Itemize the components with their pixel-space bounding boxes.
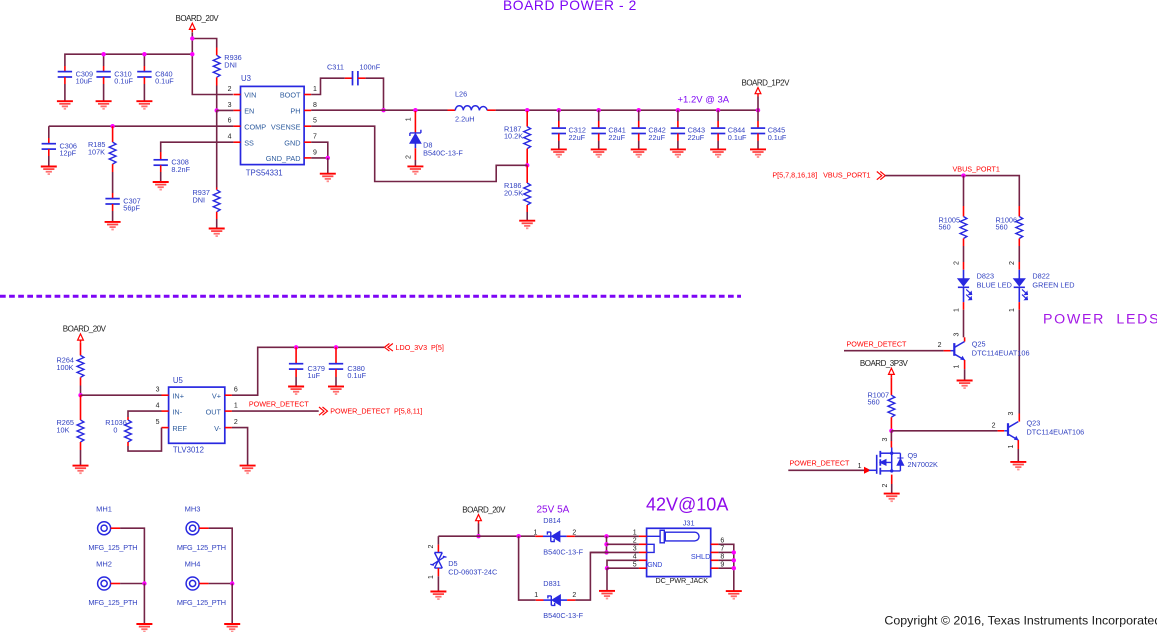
- junction pin3 node: [604, 550, 608, 554]
- svg-text:1uF: 1uF: [308, 371, 321, 380]
- lead R265 bottom red: [80, 442, 82, 450]
- svg-text:3: 3: [228, 102, 232, 109]
- ground C843: [670, 149, 686, 157]
- svg-text:2: 2: [938, 342, 942, 349]
- wire PH line: [311, 109, 447, 111]
- offpage chevron VBUS_PORT1: [877, 172, 886, 180]
- junction COMP/R185: [110, 124, 114, 128]
- svg-text:J31: J31: [683, 519, 695, 528]
- wire C311 to PH: [366, 78, 384, 110]
- U5 pin names: [172, 391, 221, 432]
- ground C844: [710, 149, 726, 157]
- lead R1006 red top: [1018, 206, 1020, 217]
- ground R186: [519, 221, 535, 229]
- inductor L26 2.2uH: [455, 106, 487, 111]
- svg-text:D823: D823: [977, 272, 994, 281]
- U3 pin numbers: [228, 86, 317, 156]
- lead C841 red: [598, 121, 600, 128]
- svg-text:2: 2: [1009, 261, 1016, 265]
- IC body J31 DC_PWR_JACK: [647, 528, 711, 576]
- svg-text:OUT: OUT: [206, 407, 222, 416]
- ground D8: [407, 166, 423, 174]
- wire MH1 wire: [120, 528, 144, 583]
- lead D822 red top: [1018, 262, 1020, 270]
- wire R936 bottom to EN: [216, 86, 218, 111]
- svg-text:MFG_125_PTH: MFG_125_PTH: [88, 543, 137, 552]
- ground C840: [136, 101, 152, 109]
- lead C843 red: [677, 121, 679, 128]
- svg-text:3: 3: [156, 387, 160, 394]
- lead C845 red: [757, 121, 759, 128]
- mounting hole MH1 (MFG_125_PTH): [98, 522, 111, 535]
- svg-text:BOARD_20V: BOARD_20V: [462, 505, 506, 514]
- junction bus/C380: [334, 345, 338, 349]
- diode D831 (B540C-13-F): [544, 595, 568, 606]
- svg-text:6: 6: [720, 537, 724, 544]
- junction shield node 9: [732, 566, 736, 570]
- lead C379 bottom: [295, 369, 297, 377]
- svg-text:BOARD_20V: BOARD_20V: [176, 14, 220, 23]
- svg-text:SS: SS: [244, 138, 254, 147]
- lead MH2 red: [111, 583, 121, 585]
- lead C380 red top: [335, 347, 337, 363]
- wire U3 gnd stem: [327, 158, 329, 174]
- svg-text:MFG_125_PTH: MFG_125_PTH: [177, 543, 226, 552]
- ground C307: [105, 222, 121, 230]
- junction shield node 7: [732, 550, 736, 554]
- lead R936 bottom red: [216, 77, 218, 85]
- lead C308 bottom: [160, 165, 162, 172]
- svg-text:2: 2: [992, 422, 996, 429]
- svg-text:DTC114EUAT106: DTC114EUAT106: [972, 349, 1030, 358]
- svg-text:B540C-13-F: B540C-13-F: [423, 149, 463, 158]
- resistor R264: [77, 355, 84, 377]
- wire VBUS_PORT1: [885, 176, 1019, 206]
- IC body U3 TPS54331: [241, 86, 305, 164]
- svg-text:MH2: MH2: [96, 560, 112, 569]
- svg-text:POWER_DETECT: POWER_DETECT: [790, 458, 851, 467]
- wire Q25 emitter to gnd: [964, 369, 966, 380]
- ground MH x144.4: [136, 624, 152, 632]
- svg-text:Copyright © 2016, Texas Instru: Copyright © 2016, Texas Instruments Inco…: [884, 614, 1157, 628]
- lead C307 red top: [112, 193, 114, 199]
- junction FB node: [525, 163, 529, 167]
- wire branch to D831: [519, 536, 536, 600]
- svg-text:2.2uH: 2.2uH: [455, 115, 474, 124]
- svg-text:1: 1: [428, 575, 435, 579]
- svg-text:25V 5A: 25V 5A: [537, 505, 570, 516]
- svg-text:4: 4: [228, 134, 232, 141]
- wire EN pin wire: [217, 109, 234, 111]
- resistor R937: [213, 190, 220, 212]
- svg-text:POWER_DETECT: POWER_DETECT: [847, 339, 908, 348]
- lead R186 bottom red: [526, 205, 528, 212]
- lead Q25 collector red: [964, 337, 966, 341]
- svg-text:DNI: DNI: [224, 61, 237, 70]
- wire C845 top lead: [757, 110, 759, 121]
- wire C844 top lead: [717, 110, 719, 121]
- svg-text:1: 1: [953, 364, 960, 368]
- svg-text:TLV3012: TLV3012: [173, 445, 204, 454]
- lead L26 left red: [448, 109, 456, 111]
- svg-text:GND_PAD: GND_PAD: [266, 154, 301, 163]
- svg-text:1: 1: [234, 403, 238, 410]
- wire BOARD_20V branch to R936: [192, 39, 216, 48]
- svg-text:10uF: 10uF: [76, 77, 93, 86]
- LED D822 GREEN: [1014, 270, 1028, 302]
- capacitor C311: [353, 71, 358, 85]
- svg-text:BOARD_20V: BOARD_20V: [63, 325, 107, 334]
- mounting hole MH2 (MFG_125_PTH): [98, 577, 111, 590]
- power BOARD_1P2V (PWR2): [742, 78, 791, 96]
- svg-text:100nF: 100nF: [360, 63, 381, 72]
- wire R1005 to D823: [963, 246, 965, 262]
- svg-text:SHLD: SHLD: [691, 552, 710, 561]
- svg-text:1: 1: [953, 308, 960, 312]
- svg-text:POWER_DETECT: POWER_DETECT: [249, 400, 310, 409]
- svg-text:P[5,7,8,16,18] VBUS_PORT1: P[5,7,8,16,18] VBUS_PORT1: [772, 171, 870, 180]
- lead R1007 top red: [890, 377, 892, 395]
- svg-text:MH1: MH1: [96, 504, 112, 513]
- ground Q25: [957, 381, 973, 389]
- svg-text:8: 8: [313, 102, 317, 109]
- junction jackline/D831 branch: [516, 534, 520, 538]
- lead C311 right red: [358, 77, 366, 79]
- LED D823 BLUE: [958, 270, 972, 302]
- power BOARD_20V (PWR5): [462, 505, 506, 523]
- junction BOARD_20V/R936: [190, 36, 194, 40]
- svg-text:B540C-13-F: B540C-13-F: [543, 548, 583, 557]
- svg-text:1: 1: [534, 592, 538, 599]
- lead D831 red left: [536, 599, 544, 601]
- svg-text:U3: U3: [241, 74, 251, 83]
- svg-text:Q25: Q25: [972, 340, 986, 349]
- capacitor C308: [154, 160, 168, 165]
- wire V+ to LDO_3V3 bus: [232, 347, 384, 395]
- wire pin8 wire: [718, 559, 733, 561]
- svg-text:EN: EN: [244, 107, 254, 116]
- wire MH4 wire: [209, 583, 233, 585]
- svg-text:22uF: 22uF: [608, 133, 625, 142]
- lead Q9 source red: [891, 475, 893, 484]
- svg-text:56pF: 56pF: [123, 204, 140, 213]
- lead D822 red bottom: [1018, 302, 1020, 310]
- junction pin1 node: [604, 534, 608, 538]
- svg-text:2: 2: [428, 544, 435, 548]
- svg-text:IN-: IN-: [172, 407, 182, 416]
- svg-text:1: 1: [1009, 308, 1016, 312]
- lead D5 red top: [437, 545, 439, 553]
- svg-text:L26: L26: [455, 89, 467, 98]
- svg-text:8.2nF: 8.2nF: [171, 165, 190, 174]
- junction VBUS/R1005: [961, 173, 965, 177]
- resistor R186: [524, 183, 531, 205]
- junction PHbus/C845: [756, 108, 760, 112]
- svg-text:MH3: MH3: [185, 504, 201, 513]
- lead Q25 emitter red: [964, 360, 966, 369]
- mounting hole MH4 (MFG_125_PTH): [186, 577, 199, 590]
- lead C844 red: [717, 121, 719, 128]
- svg-text:3: 3: [633, 546, 637, 553]
- lead R1005 red top: [963, 206, 965, 217]
- junction PH/C311: [381, 108, 385, 112]
- wire D5 to D814 line: [438, 535, 535, 537]
- wire D823 to Q25: [963, 310, 965, 338]
- lead Q23 collector red: [1018, 414, 1020, 422]
- svg-text:3: 3: [882, 437, 889, 441]
- wire BOARD_1P2V stem: [757, 97, 759, 111]
- wire POWER_DETECT to Q9 gate: [788, 469, 864, 471]
- junction R264/R265/IN+: [78, 393, 82, 397]
- lead MH3 red: [199, 527, 209, 529]
- lead C843 bottom: [677, 134, 679, 142]
- lead C840 bottom: [143, 77, 145, 84]
- lead C842 red: [638, 121, 640, 128]
- wire V- to gnd: [232, 428, 248, 466]
- power BOARD_20V (PWR1): [176, 14, 220, 32]
- wire BOARD_20V stem (jack): [478, 524, 480, 537]
- wire C306 top lead: [48, 126, 50, 138]
- svg-text:0.1uF: 0.1uF: [114, 77, 133, 86]
- TVS diode D5 CD-0603T-24C: [430, 553, 446, 569]
- lead R187 bottom red: [526, 149, 528, 166]
- ground C310: [96, 101, 112, 109]
- ground C306: [41, 167, 57, 175]
- J31 right pin stubs: [711, 544, 719, 568]
- offpage chevron POWER_DETECT: [319, 407, 328, 415]
- lead D8 bottom red: [414, 148, 416, 160]
- resistor R265: [77, 420, 84, 442]
- svg-text:GND: GND: [647, 562, 662, 569]
- lead R936 top red: [216, 48, 218, 56]
- lead C380 bottom: [335, 369, 337, 377]
- svg-text:8: 8: [720, 553, 724, 560]
- svg-text:TPS54331: TPS54331: [246, 169, 283, 178]
- ground R937: [209, 229, 225, 237]
- svg-text:1: 1: [858, 463, 862, 470]
- capacitor C845: [751, 128, 765, 133]
- junction PH/R187: [525, 108, 529, 112]
- wire Q9 drain from node: [890, 431, 892, 441]
- wire EN to R937: [216, 110, 218, 187]
- lead R937 top red: [216, 188, 218, 190]
- svg-text:GREEN LED: GREEN LED: [1032, 281, 1074, 290]
- ground D5: [430, 592, 446, 600]
- junction capbus/C840: [142, 52, 146, 56]
- lead R187 top red: [526, 111, 528, 127]
- capacitor C306: [42, 144, 56, 149]
- lead R186 top red: [526, 165, 528, 183]
- svg-text:2: 2: [234, 419, 238, 426]
- lead C379 red top: [295, 347, 297, 363]
- svg-text:6: 6: [228, 118, 232, 125]
- lead D823 red bottom: [963, 302, 965, 310]
- U5 pin numbers: [156, 387, 238, 426]
- junction MH node x232.2: [230, 581, 234, 585]
- svg-text:22uF: 22uF: [569, 133, 586, 142]
- lead MH4 red: [199, 583, 209, 585]
- ground C845: [750, 149, 766, 157]
- wire C840 top lead: [143, 54, 145, 66]
- capacitor C844: [711, 128, 725, 133]
- resistor R185: [109, 142, 116, 164]
- svg-text:CD-0603T-24C: CD-0603T-24C: [448, 568, 497, 577]
- wire COMP net: [49, 125, 234, 127]
- lead Q23 emitter red: [1017, 440, 1019, 449]
- svg-text:IN+: IN+: [172, 391, 184, 400]
- wire U3 GND to pad node: [311, 142, 328, 158]
- capacitor C840: [137, 72, 151, 77]
- lead C312 bottom: [558, 134, 560, 142]
- svg-text:V-: V-: [214, 424, 221, 433]
- svg-text:REF: REF: [172, 424, 187, 433]
- svg-text:U5: U5: [173, 376, 184, 385]
- svg-text:10K: 10K: [57, 425, 70, 434]
- svg-text:2: 2: [572, 592, 576, 599]
- lead D814 red right: [567, 535, 575, 537]
- svg-text:3: 3: [1008, 411, 1015, 415]
- ground C312: [551, 149, 567, 157]
- wire R1006 to D822: [1018, 246, 1020, 262]
- J31 left pin stubs: [639, 536, 647, 568]
- svg-text:0.1uF: 0.1uF: [728, 133, 747, 142]
- lead MH1 red: [111, 527, 121, 529]
- svg-text:9: 9: [313, 149, 317, 156]
- svg-text:V+: V+: [212, 391, 221, 400]
- svg-text:22uF: 22uF: [688, 133, 705, 142]
- svg-text:POWER_DETECT P[5,8,11]: POWER_DETECT P[5,8,11]: [330, 407, 422, 416]
- svg-text:D831: D831: [543, 579, 560, 588]
- ground J31 shield: [726, 591, 742, 599]
- lead C310 bottom: [103, 77, 105, 84]
- svg-text:BOOT: BOOT: [280, 91, 301, 100]
- wire D822 to Q23: [1018, 310, 1020, 414]
- ground C379: [288, 387, 304, 395]
- svg-text:D814: D814: [543, 516, 560, 525]
- svg-text:7: 7: [313, 134, 317, 141]
- svg-text:12pF: 12pF: [60, 149, 77, 158]
- lead D823 red top: [963, 262, 965, 270]
- wire POWER_DETECT to Q25 base: [844, 350, 944, 352]
- lead C307 bottom: [112, 204, 114, 211]
- transistor Q25 DTC114EUAT106: [951, 342, 965, 361]
- junction shield node 8: [732, 558, 736, 562]
- junction PH/D8: [413, 108, 417, 112]
- svg-text:VBUS_PORT1: VBUS_PORT1: [953, 164, 1000, 173]
- capacitor C379: [289, 364, 303, 369]
- U5 pin stubs: [162, 395, 232, 427]
- lead C845 bottom: [757, 134, 759, 142]
- resistor R1005: [960, 217, 967, 239]
- svg-text:107K: 107K: [88, 148, 105, 157]
- ground U5 V-: [240, 466, 256, 474]
- lead D831 red right: [567, 599, 575, 601]
- capacitor C310: [96, 72, 110, 77]
- lead Q9 drain red: [890, 441, 892, 448]
- wire MH3 wire: [209, 528, 233, 583]
- svg-text:1: 1: [534, 529, 538, 536]
- wire pin45 gnd stem: [606, 568, 608, 591]
- wire R185 to C307: [112, 172, 114, 193]
- wire R264 to node: [80, 386, 82, 396]
- diode D814 (B540C-13-F): [543, 531, 567, 542]
- lead C842 bottom: [638, 134, 640, 142]
- svg-text:2: 2: [882, 483, 889, 487]
- port arrow POWER_DETECT: [864, 467, 871, 474]
- svg-text:MH4: MH4: [185, 560, 201, 569]
- svg-text:POWER LEDS: POWER LEDS: [1043, 312, 1157, 328]
- power BOARD_3P3V (PWR3): [860, 359, 909, 377]
- lead R937 bottom red: [216, 212, 218, 219]
- IC body U5 TLV3012: [169, 387, 225, 443]
- svg-text:1: 1: [633, 529, 637, 536]
- wire MH stem x232.2: [231, 584, 233, 624]
- lead Q25 base red: [944, 350, 951, 352]
- lead R185 top red: [112, 126, 114, 142]
- svg-text:560: 560: [868, 398, 880, 407]
- svg-text:6: 6: [234, 387, 238, 394]
- svg-text:Q9: Q9: [908, 451, 918, 460]
- capacitor C380: [329, 364, 343, 369]
- resistor R936: [213, 55, 220, 77]
- junction MH node x144.4: [142, 581, 146, 585]
- capacitor C841: [592, 128, 606, 133]
- ground C842: [631, 149, 647, 157]
- junction U3 gnd node: [326, 156, 330, 160]
- lead R265 top red: [80, 395, 82, 420]
- lead C310 red top: [103, 66, 105, 72]
- svg-text:560: 560: [996, 223, 1008, 232]
- wire OUT to chevron: [232, 410, 319, 412]
- svg-text:4: 4: [633, 553, 637, 560]
- U3 pin names: [244, 91, 301, 163]
- svg-text:BOARD_3P3V: BOARD_3P3V: [860, 359, 909, 368]
- wire D5 bottom lead: [437, 576, 439, 591]
- lead C309 bottom: [64, 77, 66, 84]
- svg-text:MFG_125_PTH: MFG_125_PTH: [88, 598, 137, 607]
- lead D5 red bottom: [437, 568, 439, 576]
- svg-text:PH: PH: [290, 107, 300, 116]
- mounting hole MH3 (MFG_125_PTH): [186, 522, 199, 535]
- svg-text:MFG_125_PTH: MFG_125_PTH: [177, 598, 226, 607]
- wire pin9 wire: [718, 567, 733, 569]
- svg-text:GND: GND: [284, 138, 300, 147]
- wire IN- wire: [128, 411, 162, 417]
- wire VSENSE feedback: [311, 126, 527, 181]
- junction PHbus/C843: [676, 108, 680, 112]
- svg-text:DNI: DNI: [193, 196, 206, 205]
- wire pin2 wire: [607, 543, 639, 545]
- junction R1007/Q9/Q23: [889, 429, 893, 433]
- wire MH2 wire: [120, 583, 144, 585]
- svg-text:DTC114EUAT106: DTC114EUAT106: [1027, 428, 1085, 437]
- wire pin3 wire: [590, 551, 639, 553]
- svg-text:2: 2: [228, 86, 232, 93]
- ground R265: [73, 466, 89, 474]
- wire pin7 wire: [718, 551, 733, 553]
- svg-text:0.1uF: 0.1uF: [347, 371, 366, 380]
- offpage chevron LDO_3V3: [384, 344, 393, 352]
- svg-text:7: 7: [720, 546, 724, 553]
- junction jackline/BOARD_20V: [476, 534, 480, 538]
- svg-text:1: 1: [1008, 444, 1015, 448]
- svg-text:VSENSE: VSENSE: [271, 122, 301, 131]
- svg-text:BOARD_1P2V: BOARD_1P2V: [742, 78, 791, 87]
- wire C841 top lead: [598, 110, 600, 121]
- transistor Q23 DTC114EUAT106: [1004, 422, 1018, 441]
- wire D814 out to J31 pin1: [575, 535, 639, 537]
- svg-text:LDO_3V3 P[5]: LDO_3V3 P[5]: [396, 343, 444, 352]
